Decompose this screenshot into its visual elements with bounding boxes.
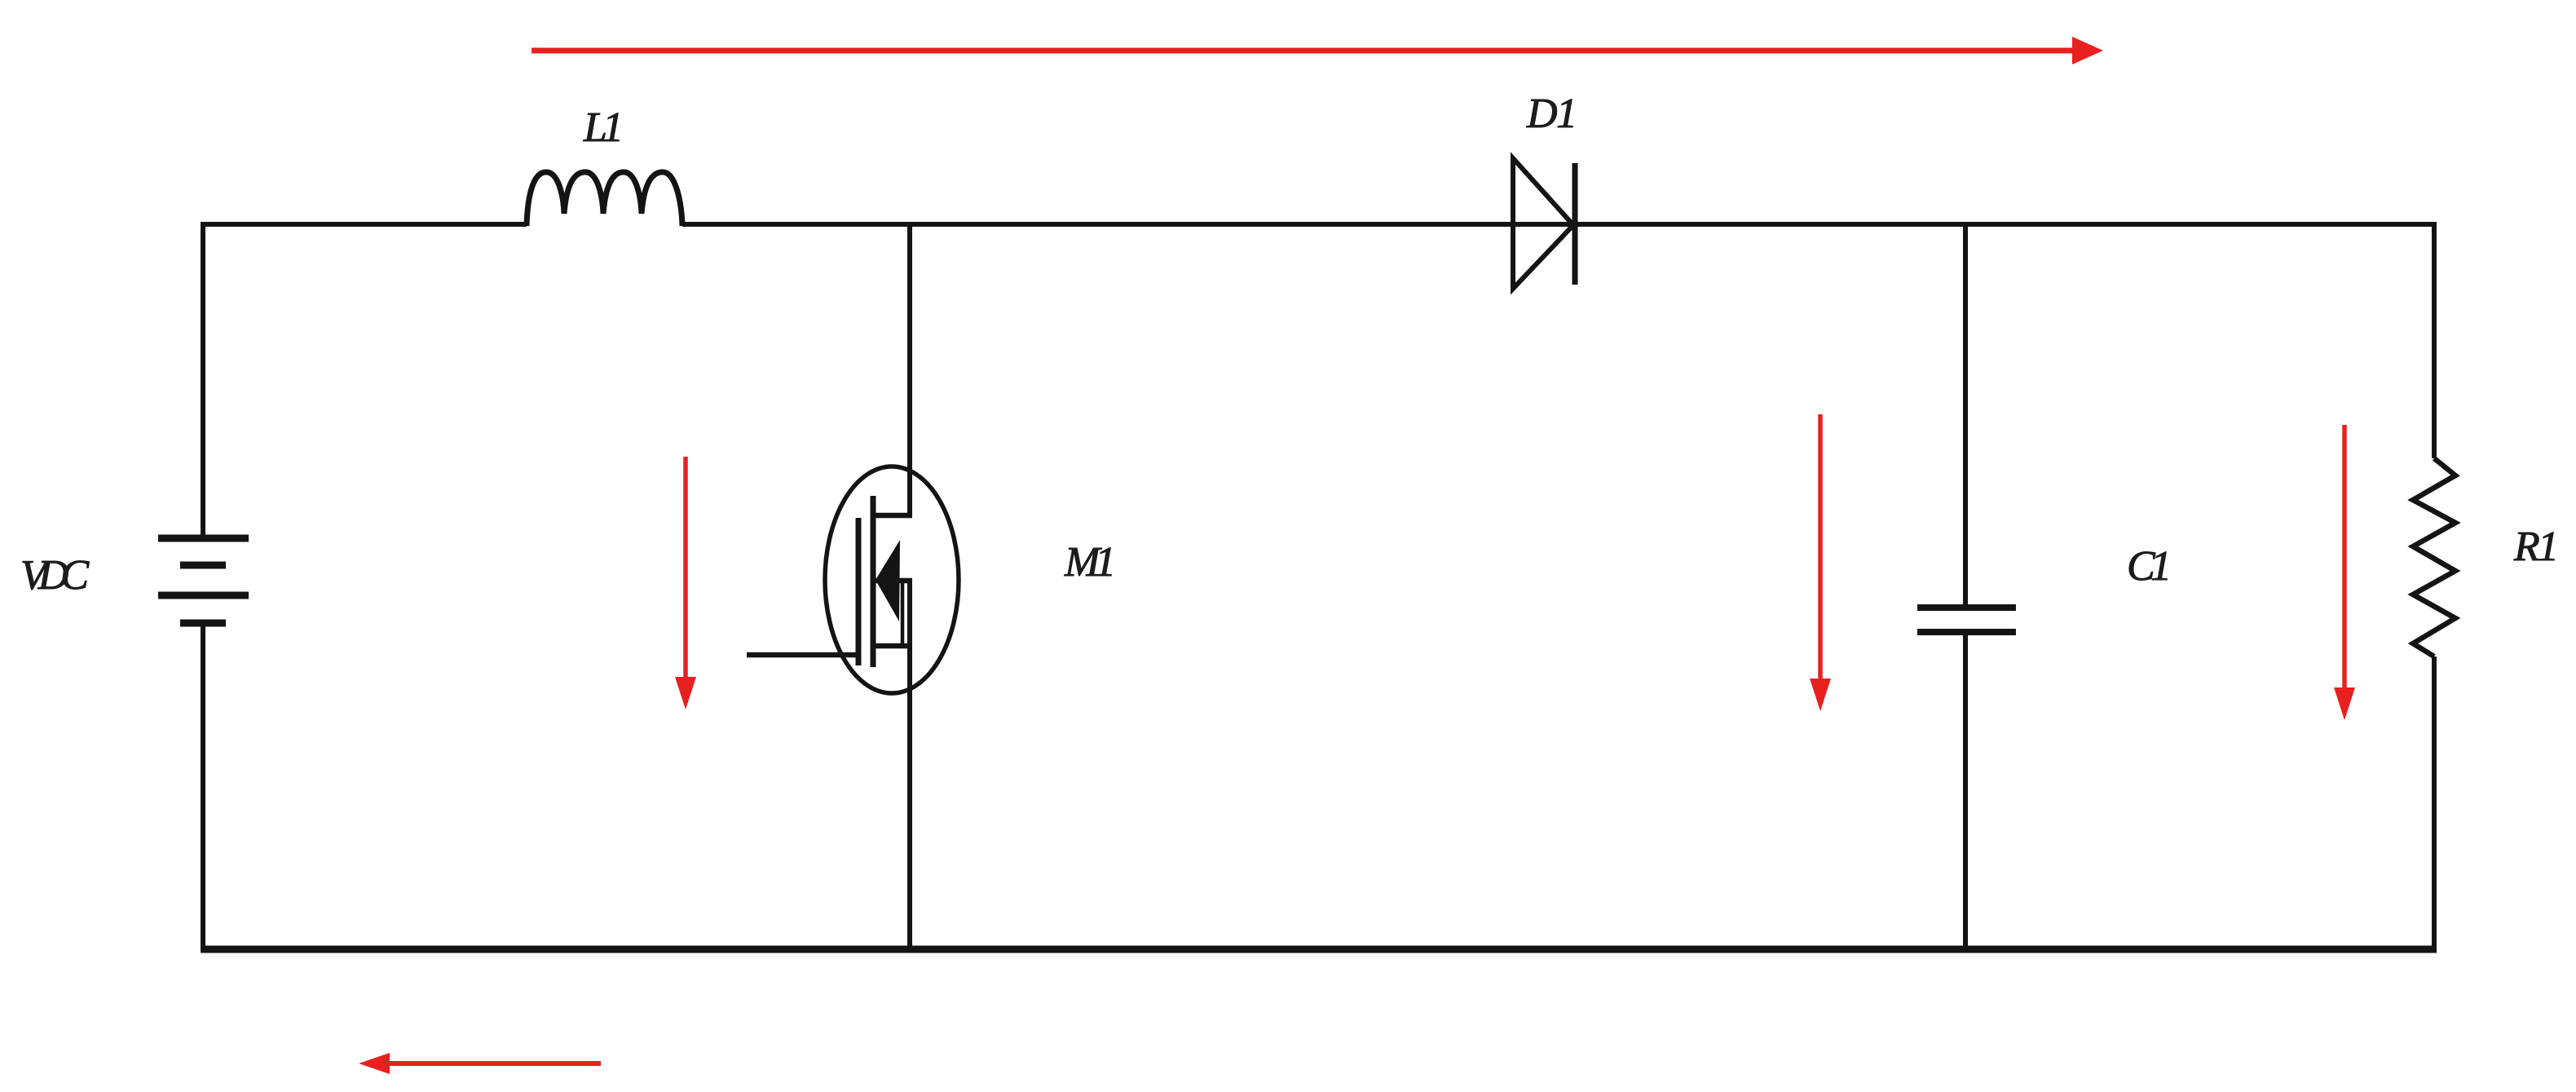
red current arrow at R1 — [2342, 425, 2347, 696]
mosfet M1 source link — [873, 643, 912, 649]
mosfet M1 channel bar — [871, 496, 876, 667]
wire bottom horizontal — [201, 946, 2437, 953]
mosfet M1 body link — [873, 578, 912, 584]
wire top left horizontal — [203, 222, 527, 227]
mosfet M1 drain link — [873, 513, 912, 519]
battery VDC plate 1 long — [158, 535, 249, 542]
battery VDC plate 4 short — [180, 620, 226, 627]
svg-text:M1: M1 — [1064, 539, 1116, 586]
wire right vertical upper — [2432, 222, 2437, 458]
mosfet M1 ellipse — [825, 466, 959, 693]
red current arrow at C1 — [1818, 414, 1823, 687]
mosfet M1 gate lead — [747, 652, 858, 658]
battery VDC plate 2 short — [180, 562, 226, 569]
inductor L1 — [527, 172, 682, 226]
wire left vertical lower — [201, 623, 205, 949]
wire M1 source vertical — [907, 580, 912, 949]
wire C1 vertical upper — [1963, 222, 1968, 608]
wire right vertical lower — [2432, 657, 2437, 949]
wire C1 vertical lower — [1963, 632, 1968, 949]
svg-text:C1: C1 — [2127, 543, 2172, 590]
svg-text:VDC: VDC — [20, 552, 90, 599]
wire M1 drain vertical — [907, 222, 912, 515]
mosfet M1 body arrow — [876, 540, 900, 621]
diode D1 cathode bar — [1573, 163, 1578, 285]
wire left vertical upper — [201, 222, 205, 538]
mosfet M1 gate bar — [856, 518, 862, 665]
red current arrow bottom — [390, 1061, 601, 1066]
svg-text:R1: R1 — [2513, 524, 2559, 570]
svg-text:L1: L1 — [583, 104, 624, 151]
capacitor C1 plate bottom — [1917, 629, 2016, 635]
diode D1 triangle — [1513, 158, 1573, 289]
resistor R1 zigzag — [2413, 458, 2455, 657]
battery VDC plate 3 long — [158, 592, 249, 599]
svg-text:D1: D1 — [1526, 91, 1577, 137]
red current arrow top — [532, 48, 2076, 54]
red current arrow left of M1 — [683, 457, 688, 685]
capacitor C1 plate top — [1917, 604, 2016, 611]
wire top right horizontal — [682, 222, 2434, 227]
mosfet M1 body stub vertical — [901, 582, 905, 644]
